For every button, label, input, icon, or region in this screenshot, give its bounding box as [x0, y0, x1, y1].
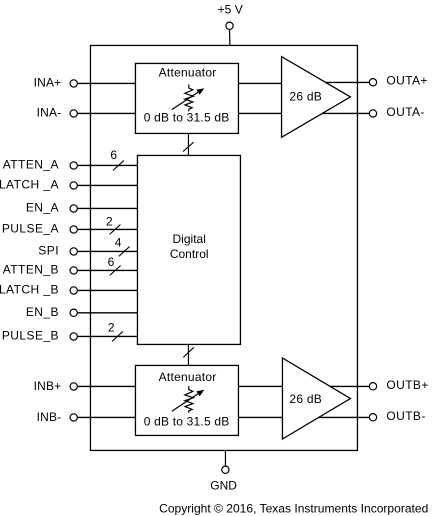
- svg-text:PULSE_A: PULSE_A: [2, 222, 59, 236]
- wire amp B to OUTB+: [330, 385, 373, 387]
- variable attenuator arrow A: [172, 92, 198, 109]
- bus slash (attenuator B bus): [183, 347, 194, 357]
- svg-text:2: 2: [106, 214, 113, 228]
- wire INB-: [74, 416, 136, 418]
- terminal OUTA-: [369, 110, 376, 117]
- terminal PULSE_A: [70, 226, 77, 233]
- svg-text:Control: Control: [170, 247, 209, 261]
- terminal PULSE_B: [70, 333, 77, 340]
- terminal INB-: [70, 414, 77, 421]
- wire attenuator B to amp B (-): [238, 416, 282, 418]
- svg-text:INA+: INA+: [34, 76, 62, 90]
- svg-text:4: 4: [115, 235, 122, 249]
- svg-text:6: 6: [110, 148, 117, 162]
- wire PULSE_B: [74, 335, 138, 337]
- terminal EN_B: [70, 309, 77, 316]
- wire amp B to OUTB-: [319, 416, 373, 418]
- svg-text:OUTB+: OUTB+: [386, 378, 428, 392]
- svg-text:OUTA-: OUTA-: [386, 105, 424, 119]
- svg-text:ATTEN_B: ATTEN_B: [3, 263, 59, 277]
- attenuator B box: [135, 365, 238, 435]
- svg-text:26 dB: 26 dB: [289, 89, 322, 103]
- wire INA+: [74, 82, 136, 84]
- GND terminal: [222, 466, 229, 473]
- terminal SPI: [70, 248, 77, 255]
- wire attenuator A to amp A (+): [238, 82, 281, 84]
- wire LATCH_B: [74, 289, 138, 291]
- terminal LATCH_A: [70, 182, 77, 189]
- bus slash ATTEN_B: [110, 266, 121, 276]
- wire ATTEN_A: [74, 164, 138, 166]
- wire ATTEN_B: [74, 269, 138, 271]
- svg-text:Copyright © 2016, Texas Instru: Copyright © 2016, Texas Instruments Inco…: [159, 501, 428, 515]
- svg-text:0 dB to 31.5 dB: 0 dB to 31.5 dB: [144, 414, 230, 428]
- bus slash ATTEN_A: [113, 161, 124, 171]
- wire INB+: [74, 385, 136, 387]
- svg-text:GND: GND: [210, 479, 237, 493]
- svg-text:ATTEN_A: ATTEN_A: [3, 158, 59, 172]
- attenuator A box: [135, 63, 238, 133]
- svg-text:Digital: Digital: [173, 232, 206, 246]
- wire LATCH_A: [74, 184, 138, 186]
- terminal OUTA+: [369, 79, 376, 86]
- svg-text:26 dB: 26 dB: [289, 392, 322, 406]
- terminal OUTB-: [369, 414, 376, 421]
- svg-text:OUTA+: OUTA+: [386, 74, 427, 88]
- svg-text:Attenuator: Attenuator: [159, 66, 217, 80]
- svg-text:OUTB-: OUTB-: [386, 409, 425, 423]
- svg-text:INA-: INA-: [37, 106, 62, 120]
- svg-text:SPI: SPI: [38, 244, 59, 258]
- svg-text:+5 V: +5 V: [218, 3, 243, 17]
- terminal EN_A: [70, 205, 77, 212]
- svg-text:EN_B: EN_B: [26, 305, 59, 319]
- svg-text:6: 6: [108, 255, 115, 269]
- wire attenuator A to amp A (-): [238, 112, 281, 114]
- svg-text:PULSE_B: PULSE_B: [2, 329, 59, 343]
- variable attenuator arrow B: [172, 394, 198, 411]
- amplifier A (26 dB): [282, 57, 351, 138]
- variable attenuator symbol B (zigzag resistor): [185, 386, 194, 413]
- svg-text:INB+: INB+: [34, 379, 62, 393]
- wire amp A to OUTA+: [326, 81, 373, 83]
- svg-text:2: 2: [108, 320, 115, 334]
- wire INA-: [74, 112, 136, 114]
- svg-text:LATCH _B: LATCH _B: [0, 283, 59, 297]
- wire attenuator B to amp B (+): [238, 385, 282, 387]
- wire EN_B: [74, 312, 138, 314]
- bus slash SPI: [119, 247, 130, 257]
- GND terminal wire: [224, 450, 226, 466]
- terminal LATCH_B: [70, 287, 77, 294]
- terminal ATTEN_B: [70, 267, 77, 274]
- digital control box: [137, 155, 240, 344]
- terminal INA-: [70, 110, 77, 117]
- svg-text:EN_A: EN_A: [26, 201, 59, 215]
- svg-text:Attenuator: Attenuator: [159, 370, 217, 384]
- amplifier B (26 dB): [282, 358, 350, 439]
- svg-text:0 dB to 31.5 dB: 0 dB to 31.5 dB: [144, 111, 230, 125]
- svg-text:INB-: INB-: [37, 410, 62, 424]
- wire EN_A: [74, 207, 138, 209]
- bus slash (attenuator A bus): [183, 142, 194, 151]
- variable attenuator symbol A (zigzag resistor): [185, 85, 194, 112]
- +5 V terminal: [229, 30, 231, 46]
- svg-text:LATCH _A: LATCH _A: [0, 178, 59, 192]
- wire amp A to OUTA-: [322, 112, 373, 114]
- wire SPI: [74, 250, 138, 252]
- bus wire attenuator A to digital control: [187, 133, 189, 155]
- bus slash PULSE_A: [110, 225, 121, 235]
- bus slash PULSE_B: [112, 332, 123, 342]
- main block outline: [90, 45, 357, 450]
- bus wire digital control to attenuator B: [187, 344, 189, 365]
- terminal INA+: [70, 80, 77, 87]
- wire PULSE_A: [74, 228, 138, 230]
- terminal INB+: [70, 383, 77, 390]
- terminal ATTEN_A: [70, 162, 77, 169]
- terminal OUTB+: [369, 383, 376, 390]
